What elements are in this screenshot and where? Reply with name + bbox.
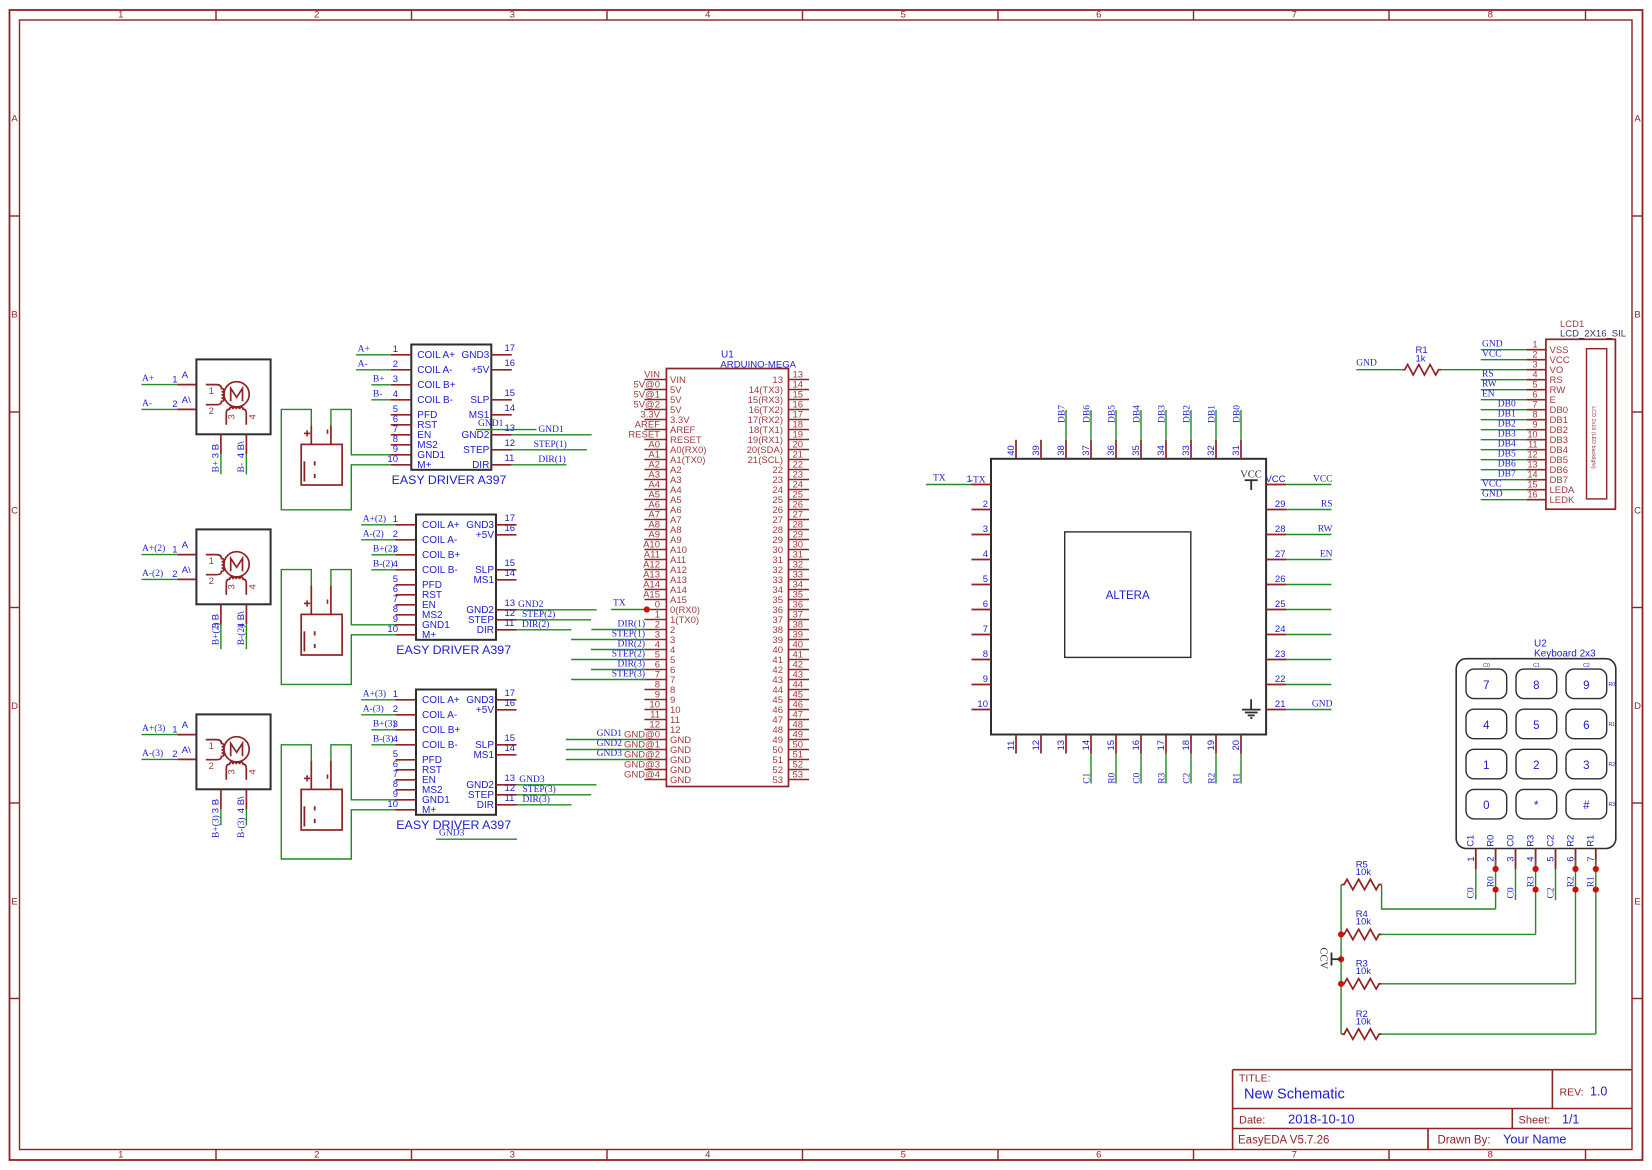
svg-text:DB4: DB4 [1132, 405, 1142, 423]
svg-text:R2: R2 [1609, 762, 1616, 768]
svg-text:GND: GND [1482, 490, 1503, 500]
svg-text:C0: C0 [1505, 835, 1516, 847]
svg-text:A+(3): A+(3) [363, 688, 386, 699]
svg-text:C: C [11, 505, 18, 516]
svg-text:10: 10 [977, 699, 988, 710]
svg-text:EasyEDA V5.7.26: EasyEDA V5.7.26 [1238, 1135, 1329, 1147]
wires DIR/STEP nets at U1 pins 2-7 [571, 619, 646, 680]
svg-text:GND1: GND1 [478, 419, 504, 429]
svg-text:6: 6 [1096, 10, 1101, 21]
wires coil A driver 3 [361, 688, 395, 714]
svg-text:Drawn By:: Drawn By: [1438, 1135, 1491, 1147]
svg-text:23: 23 [1275, 649, 1286, 660]
svg-text:GND3: GND3 [519, 775, 545, 785]
svg-text:B-(3): B-(3) [373, 733, 394, 744]
svg-text:M+: M+ [422, 630, 436, 641]
svg-text:1/1: 1/1 [1562, 1112, 1579, 1126]
svg-text:5: 5 [901, 1150, 906, 1161]
svg-text:B-: B- [237, 463, 247, 473]
svg-text:B+(2): B+(2) [211, 622, 222, 645]
svg-text:R3: R3 [1609, 802, 1616, 808]
svg-text:TX: TX [613, 599, 626, 609]
svg-text:+5V: +5V [476, 705, 494, 716]
svg-text:6: 6 [983, 599, 988, 610]
svg-text:4: 4 [247, 769, 258, 774]
wires GND/STEP/DIR driver 1 [512, 425, 592, 465]
svg-text:R0: R0 [1609, 682, 1616, 688]
svg-text:16: 16 [1131, 740, 1142, 751]
wires coil B driver 3 [371, 718, 395, 744]
svg-text:Date:: Date: [1239, 1114, 1265, 1126]
svg-text:DB0: DB0 [1232, 405, 1242, 423]
svg-text:4: 4 [983, 549, 988, 560]
svg-text:C2: C2 [1546, 887, 1556, 898]
svg-text:3: 3 [211, 808, 222, 813]
svg-text:RS: RS [1482, 370, 1494, 380]
svg-text:1: 1 [393, 514, 398, 525]
svg-text:2: 2 [172, 569, 177, 580]
svg-text:GND3: GND3 [597, 749, 623, 759]
svg-text:A+: A+ [358, 344, 370, 354]
svg-text:A: A [182, 540, 189, 551]
svg-text:2: 2 [209, 576, 214, 587]
svg-text:14: 14 [1081, 740, 1092, 751]
svg-text:1: 1 [209, 741, 214, 752]
svg-text:B+(3): B+(3) [373, 718, 396, 729]
svg-text:26: 26 [1275, 574, 1286, 585]
svg-text:LEDK: LEDK [1550, 495, 1575, 506]
svg-text:1: 1 [118, 1150, 123, 1161]
svg-text:R2: R2 [1565, 835, 1576, 847]
svg-text:DB1: DB1 [1498, 410, 1516, 420]
power flag VCC inside ALTERA [1240, 470, 1262, 491]
svg-text:10: 10 [1527, 429, 1537, 439]
wires keypad columns C0/C0/C2 (pins 1,3,5) [1467, 869, 1557, 900]
svg-text:11: 11 [505, 793, 515, 804]
svg-text:*: * [1534, 800, 1539, 812]
svg-text:2: 2 [209, 406, 214, 417]
svg-text:5: 5 [1546, 857, 1557, 862]
svg-text:1: 1 [393, 689, 398, 700]
svg-text:M+: M+ [422, 805, 436, 816]
svg-text:14: 14 [505, 568, 516, 579]
svg-text:17: 17 [505, 343, 516, 354]
svg-text:3: 3 [1583, 760, 1589, 772]
svg-text:3: 3 [1532, 359, 1537, 369]
svg-text:40: 40 [1006, 445, 1017, 456]
battery/supply B3 [301, 761, 342, 830]
svg-text:2018-10-10: 2018-10-10 [1288, 1111, 1355, 1126]
svg-text:10: 10 [387, 799, 398, 810]
svg-text:SLP: SLP [470, 395, 489, 406]
svg-text:VCC: VCC [1313, 475, 1333, 485]
svg-text:DB5: DB5 [1107, 405, 1117, 423]
svg-text:C0: C0 [1467, 887, 1477, 898]
battery/supply B1 [301, 425, 342, 485]
svg-text:13: 13 [1527, 459, 1537, 469]
svg-text:2: 2 [1533, 760, 1539, 772]
keypad U2 Keyboard 2x3 [1456, 639, 1616, 870]
motor M3 (stepper) [142, 714, 271, 838]
svg-text:DIR(3): DIR(3) [618, 659, 645, 670]
svg-text:DB6: DB6 [1082, 405, 1092, 423]
svg-text:35: 35 [1131, 445, 1142, 456]
wires keypad nets at ALTERA bottom pins [1082, 754, 1242, 784]
svg-text:COIL A-: COIL A- [422, 710, 457, 721]
wires coil A driver 2 [361, 513, 395, 539]
svg-text:VCC: VCC [1482, 350, 1502, 360]
svg-text:1: 1 [118, 10, 123, 21]
wire R3 to keypad [1382, 983, 1576, 985]
svg-text:TITLE:: TITLE: [1239, 1073, 1271, 1085]
svg-text:A-(3): A-(3) [363, 703, 384, 714]
svg-text:DB7: DB7 [1057, 405, 1067, 423]
power flag VCC at resistor rail [1318, 948, 1342, 970]
svg-text:DIR(3): DIR(3) [523, 794, 550, 805]
svg-text:3: 3 [510, 1150, 515, 1161]
svg-text:22: 22 [1275, 674, 1286, 685]
svg-text:COIL A+: COIL A+ [422, 695, 460, 706]
junction dots on VCC rail [1338, 931, 1344, 987]
svg-text:1: 1 [393, 344, 398, 355]
title block [1233, 1070, 1632, 1150]
svg-text:16: 16 [505, 358, 516, 369]
svg-text:DB7: DB7 [1498, 470, 1516, 480]
wires VCC/RS/RW/EN/GND at ALTERA right pins [1286, 475, 1333, 710]
svg-text:7: 7 [1532, 399, 1537, 409]
svg-text:COIL B-: COIL B- [422, 740, 458, 751]
svg-text:3: 3 [227, 414, 238, 419]
svg-text:6: 6 [1096, 1150, 1101, 1161]
svg-text:A-: A- [142, 399, 152, 409]
svg-text:+5V: +5V [476, 530, 494, 541]
svg-text:DB3: DB3 [1498, 430, 1516, 440]
svg-text:4: 4 [705, 10, 710, 21]
svg-text:B: B [11, 310, 17, 321]
svg-text:COIL A+: COIL A+ [422, 520, 460, 531]
svg-text:GND2: GND2 [462, 430, 490, 441]
svg-text:DB0: DB0 [1498, 400, 1516, 410]
svg-text:R1: R1 [1587, 876, 1597, 887]
svg-text:2: 2 [983, 499, 988, 510]
svg-text:GND3: GND3 [462, 350, 490, 361]
wires LCD left nets [1481, 340, 1527, 500]
svg-text:1: 1 [1483, 760, 1489, 772]
wire loop motor3-battery-driver (M+ / GND1) [281, 745, 395, 859]
svg-text:8: 8 [1532, 409, 1537, 419]
net flag GND3 wire under driver 3 [436, 829, 517, 840]
svg-text:B+(2): B+(2) [373, 543, 396, 554]
svg-text:GND3: GND3 [439, 829, 465, 839]
svg-text:LCD 2x16 (LED backlight): LCD 2x16 (LED backlight) [1590, 406, 1596, 469]
svg-text:-TX: -TX [970, 475, 986, 485]
svg-text:R0: R0 [1107, 772, 1117, 783]
svg-text:2: 2 [314, 10, 319, 21]
svg-text:9: 9 [983, 674, 988, 685]
svg-text:10: 10 [387, 624, 398, 635]
svg-text:20: 20 [1231, 740, 1242, 751]
svg-text:7: 7 [1292, 1150, 1297, 1161]
svg-text:8: 8 [1488, 1150, 1493, 1161]
svg-text:STEP(2): STEP(2) [612, 649, 645, 660]
svg-text:4: 4 [393, 389, 398, 400]
svg-text:B\: B\ [236, 611, 247, 620]
svg-text:VCC: VCC [1482, 480, 1502, 490]
svg-text:14: 14 [505, 743, 516, 754]
svg-text:25: 25 [1275, 599, 1286, 610]
svg-text:EASY DRIVER A397: EASY DRIVER A397 [392, 473, 507, 487]
svg-text:5: 5 [1533, 720, 1539, 732]
svg-text:DIR: DIR [477, 800, 494, 811]
svg-text:D: D [1634, 701, 1641, 712]
svg-text:DIR(1): DIR(1) [618, 619, 645, 630]
svg-text:A-(2): A-(2) [363, 528, 384, 539]
svg-text:1: 1 [172, 724, 177, 735]
svg-text:R3: R3 [1525, 835, 1536, 847]
svg-text:MS1: MS1 [473, 750, 494, 761]
svg-text:11: 11 [505, 618, 515, 629]
svg-text:VCC: VCC [1265, 474, 1285, 485]
svg-text:6: 6 [1532, 389, 1537, 399]
svg-text:10k: 10k [1356, 966, 1372, 977]
svg-text:32: 32 [1206, 445, 1217, 456]
wires GND/STEP/DIR driver 3 [517, 775, 597, 805]
svg-text:GND: GND [1482, 340, 1503, 350]
svg-text:C1: C1 [1082, 772, 1092, 783]
svg-text:33: 33 [1181, 445, 1192, 456]
VCC rail wire (left of R2-R5) [1340, 885, 1342, 1035]
svg-text:4: 4 [236, 808, 247, 813]
svg-text:10k: 10k [1356, 917, 1372, 928]
svg-text:DIR(2): DIR(2) [522, 619, 549, 630]
svg-text:1: 1 [1532, 339, 1537, 349]
svg-text:11: 11 [505, 453, 515, 464]
svg-text:14: 14 [1527, 469, 1537, 479]
svg-text:10: 10 [387, 454, 398, 465]
wires coil B driver 2 [371, 543, 395, 569]
svg-text:A: A [11, 114, 18, 125]
svg-text:19: 19 [1206, 740, 1217, 751]
svg-text:Keyboard 2x3: Keyboard 2x3 [1534, 648, 1596, 659]
resistor R2 10k [1342, 1009, 1382, 1039]
wire loop motor2-battery-driver (M+ / GND1) [281, 570, 395, 685]
svg-text:15: 15 [1527, 479, 1537, 489]
svg-text:Your Name: Your Name [1503, 1132, 1567, 1147]
svg-text:4: 4 [705, 1150, 710, 1161]
svg-text:A-(3): A-(3) [142, 748, 163, 759]
svg-text:R1: R1 [1232, 772, 1242, 783]
svg-text:C0: C0 [1506, 887, 1516, 898]
svg-text:8: 8 [983, 649, 988, 660]
svg-text:B\: B\ [236, 796, 247, 805]
svg-text:ALTERA: ALTERA [1106, 590, 1150, 602]
svg-text:2: 2 [172, 399, 177, 410]
svg-text:9: 9 [1583, 680, 1589, 692]
svg-text:4: 4 [247, 584, 258, 589]
svg-text:R3: R3 [1157, 772, 1167, 783]
svg-text:C0: C0 [1483, 663, 1490, 669]
svg-text:3: 3 [227, 584, 238, 589]
svg-text:5: 5 [983, 574, 988, 585]
svg-text:DIR: DIR [477, 625, 494, 636]
svg-text:2: 2 [209, 761, 214, 772]
motor M1 (stepper) [142, 359, 271, 474]
svg-text:7: 7 [1292, 10, 1297, 21]
wires coil A driver 1 [356, 344, 391, 369]
svg-text:2: 2 [393, 704, 398, 715]
svg-text:B: B [1634, 310, 1640, 321]
svg-text:RW: RW [1482, 380, 1497, 390]
svg-text:C: C [1634, 505, 1641, 516]
svg-text:34: 34 [1156, 445, 1167, 456]
svg-text:1: 1 [172, 374, 177, 385]
wire R5 to keypad [1382, 885, 1496, 910]
svg-text:A\: A\ [182, 395, 191, 406]
svg-text:7: 7 [983, 624, 988, 635]
svg-text:3: 3 [227, 769, 238, 774]
svg-text:3: 3 [983, 524, 988, 535]
svg-text:37: 37 [1081, 445, 1092, 456]
svg-text:R0: R0 [1485, 835, 1496, 847]
svg-text:29: 29 [1275, 499, 1286, 510]
svg-text:STEP(2): STEP(2) [522, 609, 555, 620]
svg-text:4: 4 [247, 414, 258, 419]
svg-text:D: D [11, 701, 18, 712]
svg-text:17: 17 [1156, 740, 1167, 751]
svg-text:18: 18 [1181, 740, 1192, 751]
svg-text:B-(3): B-(3) [236, 817, 247, 838]
svg-text:12: 12 [505, 438, 516, 449]
svg-text:B-(2): B-(2) [236, 625, 247, 646]
svg-text:31: 31 [1231, 445, 1242, 456]
svg-text:B+(3): B+(3) [211, 815, 222, 838]
svg-text:11: 11 [1528, 439, 1537, 449]
svg-text:COIL A-: COIL A- [417, 365, 452, 376]
svg-text:DB2: DB2 [1182, 405, 1192, 423]
svg-text:DB6: DB6 [1498, 460, 1516, 470]
svg-text:A+(2): A+(2) [363, 513, 386, 524]
svg-text:A+(3): A+(3) [142, 723, 165, 734]
svg-text:#: # [1583, 800, 1590, 812]
svg-text:B\: B\ [236, 441, 247, 450]
svg-text:3: 3 [211, 453, 222, 458]
svg-text:R3: R3 [1526, 876, 1536, 887]
svg-text:C2: C2 [1545, 835, 1556, 847]
svg-text:B: B [211, 799, 222, 805]
svg-text:New Schematic: New Schematic [1244, 1087, 1345, 1103]
svg-text:A+(2): A+(2) [142, 543, 165, 554]
svg-text:GND: GND [1356, 359, 1377, 369]
svg-text:C1: C1 [1466, 835, 1477, 847]
svg-text:VCC: VCC [1240, 470, 1262, 481]
svg-text:STEP(1): STEP(1) [612, 629, 645, 640]
wires coil B driver 1 [371, 374, 390, 399]
svg-text:C2: C2 [1182, 772, 1192, 783]
svg-text:GND@4: GND@4 [624, 770, 660, 781]
svg-text:A+: A+ [142, 374, 154, 384]
svg-text:4: 4 [393, 734, 398, 745]
svg-text:COIL B-: COIL B- [422, 565, 458, 576]
svg-text:STEP: STEP [463, 445, 489, 456]
svg-text:24: 24 [1275, 624, 1286, 635]
svg-text:DB2: DB2 [1498, 420, 1516, 430]
svg-text:COIL A+: COIL A+ [417, 350, 455, 361]
wires GND1/GND2/GND3 at U1 GND pins [566, 729, 647, 760]
svg-text:8: 8 [1533, 680, 1539, 692]
svg-text:6: 6 [1583, 720, 1589, 732]
svg-text:REV:: REV: [1560, 1087, 1584, 1099]
svg-text:R2: R2 [1566, 876, 1576, 887]
resistor R5 10k [1342, 859, 1382, 889]
IC U1 ARDUINO-MEGA [624, 350, 809, 787]
svg-text:R1: R1 [1586, 835, 1597, 847]
svg-text:5: 5 [901, 10, 906, 21]
svg-text:4: 4 [1532, 369, 1537, 379]
battery/supply B2 [301, 585, 342, 655]
svg-text:EASY DRIVER A397: EASY DRIVER A397 [396, 643, 511, 657]
svg-text:STEP(1): STEP(1) [534, 439, 567, 450]
svg-text:+5V: +5V [471, 365, 489, 376]
svg-text:27: 27 [1275, 549, 1286, 560]
driver U4 EASY DRIVER A397 [387, 513, 516, 657]
svg-text:DIR(1): DIR(1) [538, 454, 565, 465]
svg-text:A\: A\ [182, 745, 191, 756]
svg-text:15: 15 [1106, 740, 1117, 751]
svg-text:RW: RW [1318, 525, 1333, 535]
svg-text:DB3: DB3 [1157, 405, 1167, 423]
svg-text:3: 3 [510, 10, 515, 21]
resistor R3 10k [1342, 959, 1382, 989]
svg-text:R1: R1 [1609, 722, 1616, 728]
svg-text:B+: B+ [373, 374, 385, 384]
svg-text:15: 15 [505, 388, 516, 399]
svg-text:1: 1 [172, 544, 177, 555]
svg-text:GND1: GND1 [538, 425, 564, 435]
svg-text:1: 1 [209, 386, 214, 397]
svg-text:GND1: GND1 [597, 729, 623, 739]
svg-text:B+: B+ [212, 461, 222, 473]
IC ALTERA (FPGA) [967, 440, 1287, 754]
svg-text:B: B [211, 444, 222, 450]
wire TX to U1 pin 0 with junction [611, 599, 650, 613]
svg-text:13: 13 [1056, 740, 1067, 751]
svg-text:1k: 1k [1416, 353, 1426, 364]
svg-text:1: 1 [1466, 857, 1477, 862]
svg-text:B-(2): B-(2) [373, 558, 394, 569]
svg-text:A-(2): A-(2) [142, 568, 163, 579]
svg-text:3: 3 [393, 374, 398, 385]
svg-text:C2: C2 [1583, 663, 1590, 669]
svg-text:1.0: 1.0 [1590, 1085, 1607, 1099]
svg-text:DIR(2): DIR(2) [618, 639, 645, 650]
svg-text:C1: C1 [1533, 663, 1540, 669]
svg-text:13: 13 [505, 423, 516, 434]
svg-text:EN: EN [1482, 390, 1495, 400]
svg-text:COIL B+: COIL B+ [417, 380, 455, 391]
svg-text:8: 8 [1488, 10, 1493, 21]
wires DB0-DB7 at ALTERA top pins [1057, 405, 1242, 440]
svg-text:DB1: DB1 [1207, 405, 1217, 423]
wires keypad rows R0/R3/R2/R1 (pins 2,4,6,7) with junctions [1486, 860, 1599, 1034]
svg-text:LCD_2X16_SIL: LCD_2X16_SIL [1560, 328, 1626, 339]
svg-text:MS1: MS1 [473, 575, 494, 586]
svg-text:2: 2 [1532, 349, 1537, 359]
svg-text:EN: EN [1320, 550, 1333, 560]
wire R2 to keypad [1382, 1033, 1596, 1035]
svg-text:11: 11 [1006, 741, 1017, 751]
motor M2 (stepper) [142, 529, 271, 649]
svg-text:38: 38 [1056, 445, 1067, 456]
